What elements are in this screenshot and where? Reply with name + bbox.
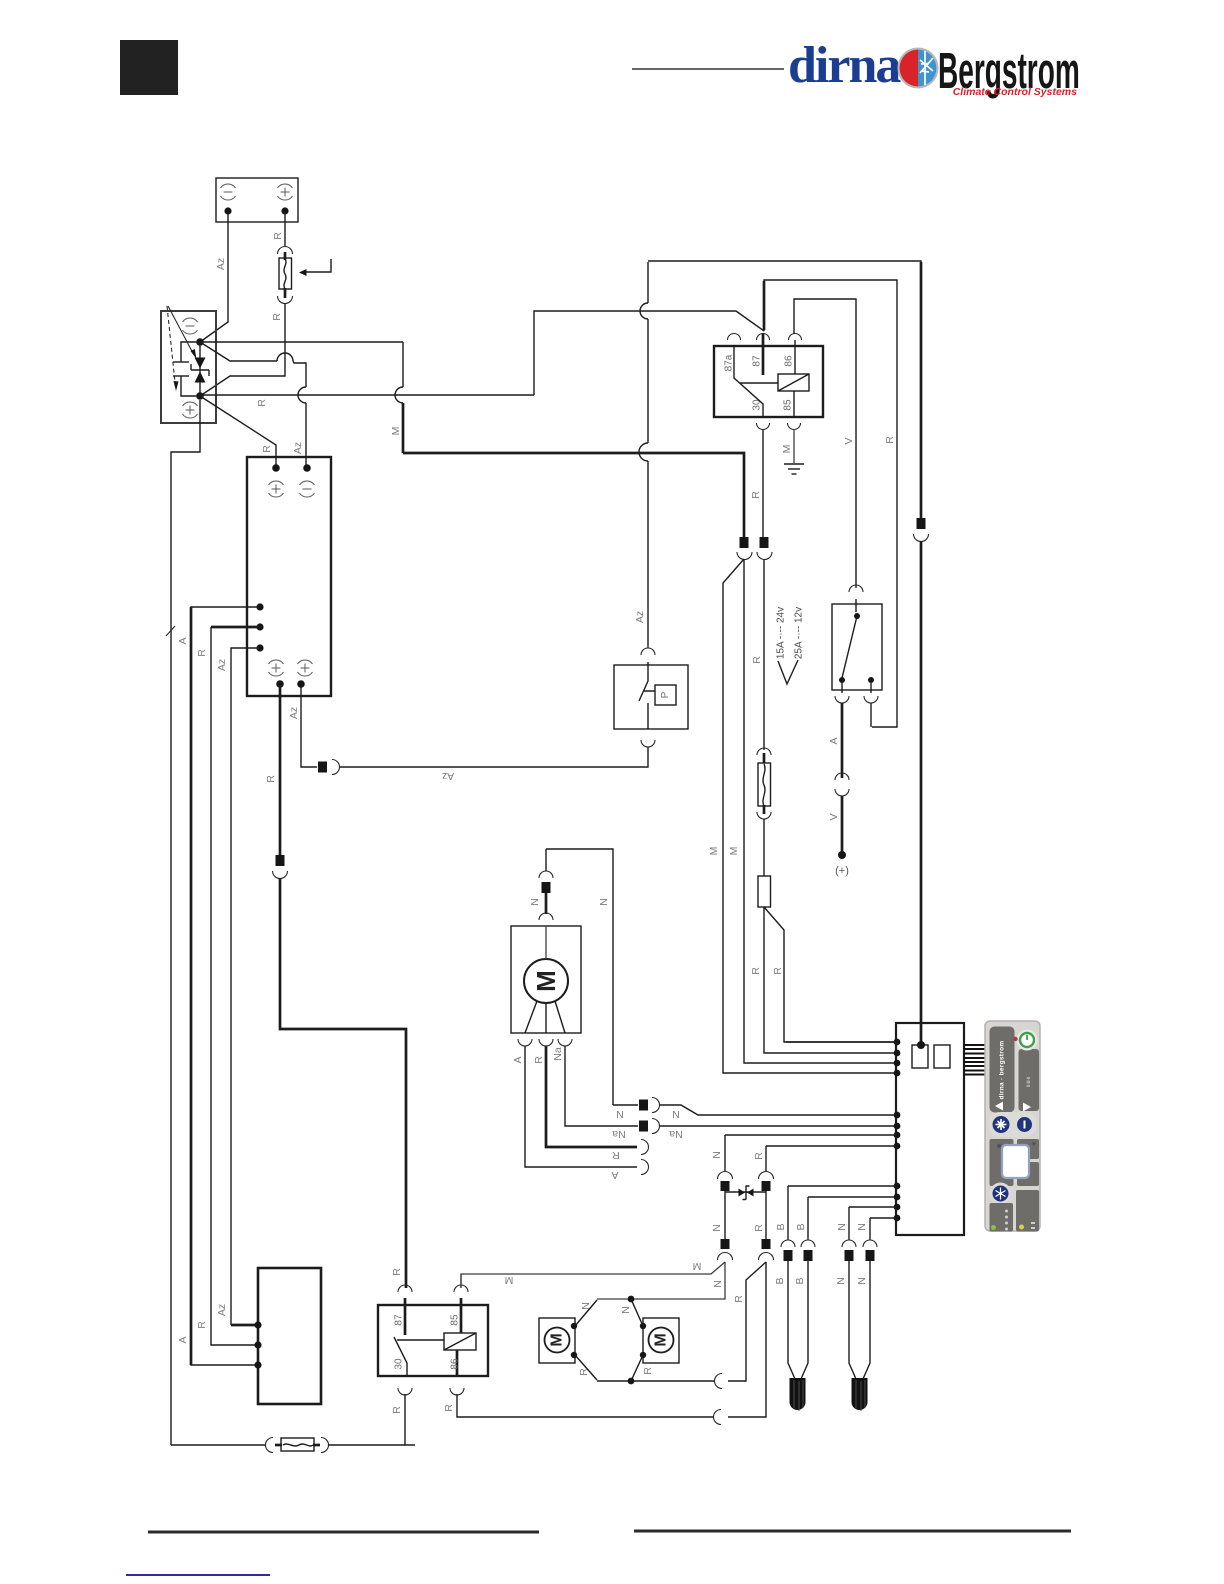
svg-text:R: R [196,649,208,657]
svg-text:R: R [265,775,277,783]
svg-text:87a: 87a [724,354,735,371]
svg-text:25A -·-- 12v: 25A -·-- 12v [794,607,805,659]
svg-text:Az: Az [215,258,227,270]
svg-text:R: R [261,445,273,453]
svg-text:A: A [177,637,189,644]
svg-text:R: R [196,1321,208,1329]
svg-text:Az: Az [442,770,454,782]
svg-text:(+): (+) [835,865,849,877]
svg-text:86: 86 [450,1358,461,1370]
svg-text:dirna · bergstrom: dirna · bergstrom [999,1041,1006,1100]
svg-text:Az: Az [216,1304,228,1316]
svg-text:R: R [753,1224,765,1232]
svg-text:Az: Az [288,707,300,719]
svg-text:M: M [653,1333,670,1346]
svg-text:R: R [753,1152,765,1160]
svg-text:N: N [711,1151,723,1159]
svg-text:N: N [836,1223,848,1231]
svg-text:dirna: dirna [788,37,901,94]
svg-text:Az: Az [634,611,646,623]
svg-text:R: R [612,1149,620,1161]
svg-text:85: 85 [783,399,794,411]
svg-text:R: R [272,232,284,240]
svg-text:N: N [711,1224,723,1232]
svg-text:M: M [390,427,402,436]
svg-text:N: N [835,1277,847,1285]
svg-text:N: N [672,1108,680,1120]
svg-text:30: 30 [752,399,763,411]
svg-text:Na: Na [552,1047,564,1061]
svg-text:N: N [598,898,610,906]
svg-text:Az: Az [216,659,228,671]
svg-text:N: N [620,1306,632,1314]
svg-text:R: R [578,1368,590,1376]
svg-text:R: R [884,436,896,444]
svg-text:R: R [391,1268,403,1276]
svg-text:R: R [256,399,268,407]
svg-text:B: B [774,1277,786,1284]
svg-text:M: M [781,445,793,454]
svg-text:R: R [750,967,762,975]
svg-text:N: N [712,1280,724,1288]
svg-text:N: N [616,1108,624,1120]
svg-text:R: R [642,1367,654,1375]
svg-text:V: V [843,437,855,444]
svg-text:M: M [708,847,720,856]
svg-text:30: 30 [394,1358,405,1370]
svg-text:M: M [505,1274,514,1286]
svg-text:B: B [794,1277,806,1284]
svg-text:R: R [750,491,762,499]
svg-text:N: N [580,1302,592,1310]
svg-text:Na: Na [669,1128,683,1140]
svg-text:N: N [856,1277,868,1285]
svg-text:A: A [611,1169,618,1181]
svg-text:86: 86 [784,355,795,367]
svg-text:87: 87 [752,355,763,367]
svg-text:Az: Az [292,442,304,454]
svg-text:B: B [775,1223,787,1230]
svg-text:M: M [549,1333,566,1346]
svg-text:B: B [795,1223,807,1230]
svg-text:R: R [772,967,784,975]
svg-text:87: 87 [394,1314,405,1326]
svg-text:M: M [728,847,740,856]
svg-text:❄: ❄ [997,1143,1002,1150]
svg-text:☀: ☀ [1031,1141,1036,1148]
svg-text:A: A [828,737,840,744]
svg-text:R: R [751,656,763,664]
svg-text:R: R [271,313,283,321]
svg-text:P: P [660,691,671,698]
svg-text:M: M [531,970,561,992]
svg-text:Na: Na [612,1128,626,1140]
svg-text:R: R [733,1295,745,1303]
svg-text:Climate Control Systems: Climate Control Systems [953,86,1077,98]
svg-text:ll·lll·ll: ll·lll·ll [1026,1077,1031,1087]
svg-text:A: A [512,1056,524,1063]
svg-text:M: M [693,1260,702,1272]
svg-text:R: R [443,1404,455,1412]
svg-text:85: 85 [450,1314,461,1326]
svg-text:15A -·-- 24v: 15A -·-- 24v [776,607,787,659]
svg-text:N: N [856,1223,868,1231]
svg-text:R: R [391,1406,403,1414]
svg-text:V: V [828,813,840,820]
svg-text:A: A [177,1336,189,1343]
svg-text:R: R [533,1056,545,1064]
svg-text:N: N [529,898,541,906]
